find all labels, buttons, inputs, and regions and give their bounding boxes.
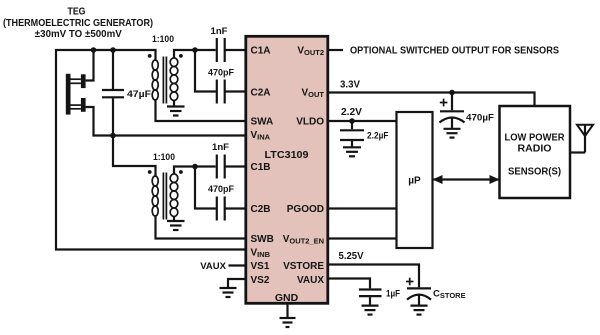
svg-text:C2A: C2A bbox=[251, 88, 271, 99]
svg-text:SWA: SWA bbox=[251, 117, 274, 128]
svg-text:LTC3109: LTC3109 bbox=[265, 150, 309, 161]
TEG title text bbox=[3, 6, 153, 41]
node junction 2.2uF bbox=[349, 118, 355, 124]
capacitor C-IN 47uF bbox=[102, 50, 151, 136]
svg-text:C1B: C1B bbox=[251, 162, 271, 173]
svg-text:470pF: 470pF bbox=[208, 184, 234, 195]
svg-text:±30mV TO ±500mV: ±30mV TO ±500mV bbox=[35, 28, 122, 40]
svg-text:SENSOR(S): SENSOR(S) bbox=[508, 166, 561, 177]
svg-text:µP: µP bbox=[408, 176, 421, 187]
svg-text:VOUT: VOUT bbox=[301, 88, 324, 100]
svg-text:TEG: TEG bbox=[68, 6, 86, 18]
wire TEG minus to VINA bbox=[86, 107, 245, 136]
svg-text:47µF: 47µF bbox=[127, 89, 151, 100]
node junction C1B bbox=[192, 164, 198, 170]
svg-text:3.3V: 3.3V bbox=[340, 80, 360, 91]
svg-text:SWB: SWB bbox=[251, 234, 274, 245]
node 47uF top on rail bbox=[110, 47, 116, 53]
svg-text:VSTORE: VSTORE bbox=[283, 261, 324, 272]
svg-text:470pF: 470pF bbox=[208, 68, 234, 79]
wire VAUX label to VS1 bbox=[200, 261, 246, 272]
svg-text:VAUX: VAUX bbox=[297, 275, 324, 286]
capacitor 1nF A bbox=[211, 26, 245, 62]
arrow uP to radio bbox=[433, 175, 500, 184]
svg-text:RADIO: RADIO bbox=[518, 144, 552, 155]
svg-text:VLDO: VLDO bbox=[296, 117, 324, 128]
svg-text:VOUT2: VOUT2 bbox=[297, 46, 324, 58]
capacitor 1uF bbox=[359, 289, 400, 315]
capacitor 470uF bbox=[440, 93, 495, 138]
wire T1 secondary top to C1A node bbox=[174, 50, 216, 58]
capacitor CSTORE bbox=[406, 278, 466, 315]
svg-text:5.25V: 5.25V bbox=[339, 251, 364, 262]
svg-text:1:100: 1:100 bbox=[152, 34, 174, 45]
wire SWB bbox=[156, 216, 245, 239]
capacitor 470pF A bbox=[195, 50, 245, 104]
wire VIN to transformer B primary bbox=[113, 136, 156, 177]
node junction C1A bbox=[192, 47, 198, 53]
svg-text:VINA: VINA bbox=[251, 130, 271, 142]
ground T2 secondary bbox=[167, 216, 185, 230]
transformer T1 1:100 bbox=[148, 34, 183, 104]
capacitor 470pF B bbox=[195, 167, 245, 221]
svg-text:PGOOD: PGOOD bbox=[287, 204, 324, 215]
svg-text:1nF: 1nF bbox=[212, 142, 229, 153]
svg-text:CSTORE: CSTORE bbox=[433, 289, 466, 301]
svg-text:470µF: 470µF bbox=[466, 113, 494, 124]
svg-text:OPTIONAL SWITCHED OUTPUT FOR S: OPTIONAL SWITCHED OUTPUT FOR SENSORS bbox=[350, 46, 559, 57]
node 47uF bottom on VINA wire bbox=[110, 133, 116, 139]
svg-text:VOUT2_EN: VOUT2_EN bbox=[283, 234, 324, 246]
svg-text:1nF: 1nF bbox=[211, 26, 228, 37]
wire T2 secondary top to C1B node bbox=[174, 167, 216, 174]
svg-text:LOW POWER: LOW POWER bbox=[505, 133, 566, 144]
wire VAUX to 1uF bbox=[328, 279, 370, 289]
svg-text:VS2: VS2 bbox=[251, 275, 270, 286]
svg-text:VS1: VS1 bbox=[251, 261, 270, 272]
ground VS2 bbox=[220, 279, 246, 297]
svg-text:VAUX: VAUX bbox=[200, 261, 226, 272]
wire top rail bbox=[56, 50, 245, 250]
TEG bbox=[66, 74, 86, 115]
transformer T2 1:100 bbox=[148, 152, 183, 220]
svg-text:(THERMOELECTRIC GENERATOR): (THERMOELECTRIC GENERATOR) bbox=[3, 17, 153, 29]
IC U1 LTC3109 bbox=[246, 36, 328, 304]
capacitor 2.2uF bbox=[340, 121, 389, 156]
svg-text:C1A: C1A bbox=[251, 46, 271, 57]
wire TEG plus to rail bbox=[86, 50, 94, 81]
radio box bbox=[500, 106, 571, 198]
wire PGOOD bbox=[328, 207, 397, 209]
wire SWA bbox=[156, 100, 245, 121]
wire VOUT2_EN bbox=[328, 237, 397, 239]
wire VSTORE 5.25V bbox=[328, 265, 419, 288]
capacitor 1nF B bbox=[212, 142, 245, 179]
wire VLDO 2.2V bbox=[328, 120, 397, 122]
svg-text:C2B: C2B bbox=[251, 204, 271, 215]
ground GND pin bbox=[280, 303, 296, 327]
wire VOUT 3.3V rail bbox=[328, 93, 535, 107]
svg-text:1µF: 1µF bbox=[386, 289, 400, 300]
node TEG top on rail bbox=[91, 47, 97, 53]
svg-text:2.2V: 2.2V bbox=[341, 107, 362, 118]
svg-text:VINB: VINB bbox=[251, 248, 271, 260]
antenna bbox=[570, 125, 593, 153]
svg-text:2.2µF: 2.2µF bbox=[367, 131, 389, 142]
ground T1 secondary bbox=[167, 100, 185, 115]
node junction 470uF bbox=[449, 90, 455, 96]
svg-text:GND: GND bbox=[275, 292, 299, 304]
wire VOUT2 stub bbox=[328, 49, 343, 51]
uP box bbox=[397, 112, 433, 248]
svg-text:1:100: 1:100 bbox=[153, 152, 175, 163]
